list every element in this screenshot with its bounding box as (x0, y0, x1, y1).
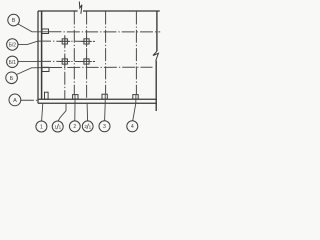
svg-text:А: А (13, 98, 17, 104)
svg-text:Б: Б (10, 76, 14, 82)
svg-text:1: 1 (59, 125, 62, 130)
svg-text:2: 2 (73, 124, 76, 130)
svg-text:В: В (12, 18, 16, 24)
svg-text:4: 4 (131, 124, 134, 130)
svg-text:Б/1: Б/1 (9, 60, 17, 66)
svg-text:1: 1 (40, 124, 43, 130)
svg-text:Б/2: Б/2 (9, 43, 17, 49)
svg-text:1: 1 (89, 124, 92, 129)
svg-text:3: 3 (103, 124, 106, 130)
svg-text:1: 1 (54, 124, 57, 129)
svg-text:2: 2 (84, 124, 87, 129)
